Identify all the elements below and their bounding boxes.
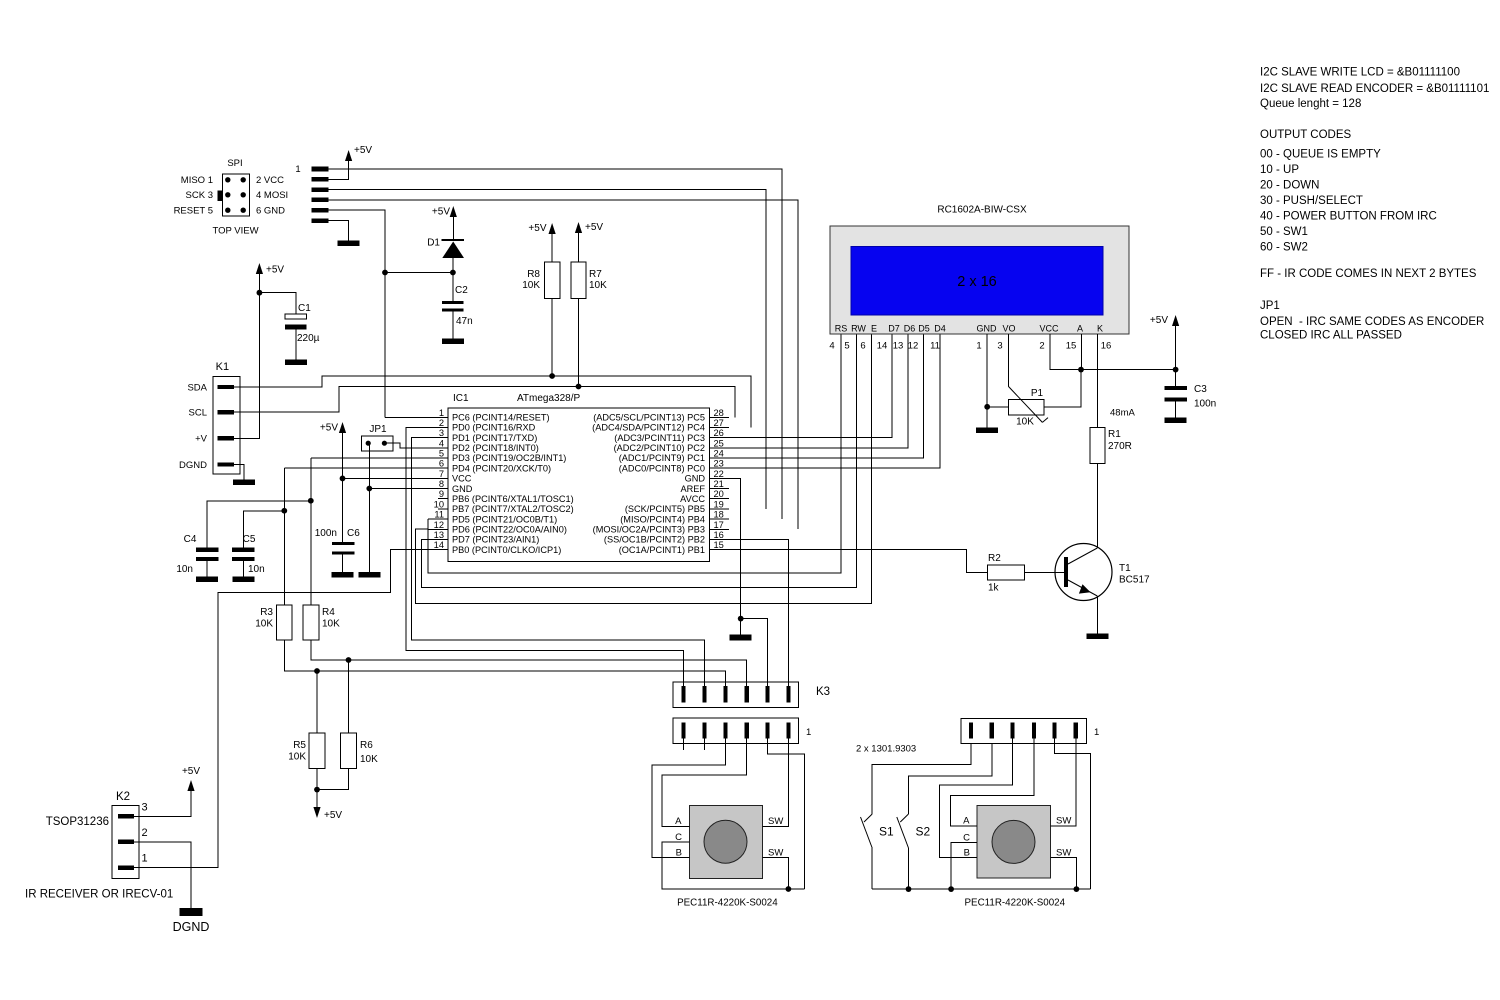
svg-text:+V: +V	[195, 434, 208, 445]
svg-text:18: 18	[714, 510, 724, 520]
svg-text:I2C SLAVE READ ENCODER = &B011: I2C SLAVE READ ENCODER = &B01111101	[1260, 83, 1489, 95]
svg-text:+5V: +5V	[432, 207, 450, 218]
pin 24 IC1 right stub	[709, 457, 729, 459]
svg-text:R8: R8	[527, 269, 540, 280]
svg-text:1k: 1k	[988, 583, 1000, 594]
svg-text:27: 27	[714, 418, 724, 428]
pin 22 IC1 right stub	[709, 477, 729, 479]
svg-text:C: C	[675, 832, 682, 843]
connector K3	[673, 682, 799, 707]
svg-text:+5V: +5V	[585, 222, 603, 233]
svg-text:40 - POWER BUTTON FROM IRC: 40 - POWER BUTTON FROM IRC	[1260, 211, 1437, 223]
switch S1	[872, 744, 971, 814]
node +5V / C3 junction	[1173, 367, 1179, 373]
svg-text:20: 20	[714, 489, 724, 499]
svg-text:14: 14	[877, 341, 888, 352]
svg-text:PD2 (PCINT18/INT0): PD2 (PCINT18/INT0)	[452, 443, 539, 453]
svg-text:K1: K1	[216, 361, 229, 373]
wire P1 right to A net	[1044, 370, 1081, 407]
svg-text:20 - DOWN: 20 - DOWN	[1260, 180, 1319, 192]
pin 9 IC1 left stub	[438, 498, 448, 500]
node +V junction	[257, 290, 263, 296]
connector K2 TSOP31236	[112, 806, 139, 879]
resistor R4 10K	[303, 605, 319, 640]
svg-text:JP1: JP1	[1260, 300, 1280, 312]
ground below IC	[730, 635, 752, 641]
svg-text:R6: R6	[360, 740, 373, 751]
svg-text:1: 1	[295, 164, 300, 175]
svg-text:1: 1	[976, 341, 981, 352]
wire GND to K3 pin5	[741, 619, 768, 686]
pin 28 IC1 right stub	[709, 416, 729, 418]
svg-text:4: 4	[439, 438, 444, 448]
wire C5 to R3 net	[243, 511, 284, 548]
svg-text:AREF: AREF	[680, 484, 705, 494]
svg-text:3: 3	[142, 802, 148, 814]
capacitor C4 10n	[196, 548, 219, 552]
ground at C3	[1165, 418, 1187, 424]
ground at C4	[196, 576, 218, 582]
svg-text:+5V: +5V	[324, 810, 342, 821]
resistor R8 10K	[544, 262, 560, 298]
svg-text:14: 14	[434, 540, 444, 550]
svg-text:R7: R7	[589, 269, 602, 280]
svg-text:RW: RW	[851, 324, 866, 334]
svg-text:10K: 10K	[522, 280, 540, 291]
svg-text:IC1: IC1	[453, 393, 469, 404]
svg-text:5: 5	[844, 341, 849, 352]
svg-text:K3: K3	[816, 686, 830, 698]
svg-text:E: E	[871, 324, 877, 334]
node rail C	[948, 886, 954, 892]
svg-text:C1: C1	[298, 303, 311, 314]
jumper JP1	[362, 436, 394, 451]
node C5 net	[281, 508, 287, 514]
svg-text:GND: GND	[977, 324, 998, 334]
svg-text:R1: R1	[1108, 429, 1121, 440]
svg-text:2 VCC: 2 VCC	[256, 175, 284, 186]
svg-text:B: B	[964, 847, 970, 858]
pin 17 IC1 right stub	[709, 528, 729, 530]
power +5V arrow at D1	[452, 214, 454, 240]
svg-text:PD5 (PCINT21/OC0B/T1): PD5 (PCINT21/OC0B/T1)	[452, 514, 557, 524]
svg-text:FF - IR CODE COMES IN NEXT 2 B: FF - IR CODE COMES IN NEXT 2 BYTES	[1260, 268, 1477, 280]
node VCC/A junction	[1078, 367, 1084, 373]
power +5V arrow at K1	[258, 271, 260, 293]
power +5V arrow at K2	[190, 788, 192, 790]
pin 20 IC1 right stub	[709, 498, 729, 500]
capacitor C5 10n	[232, 548, 255, 552]
svg-text:16: 16	[714, 530, 724, 540]
wire encoder1 SW bottom	[763, 858, 789, 890]
svg-text:13: 13	[893, 341, 904, 352]
svg-text:SPI: SPI	[227, 158, 242, 169]
svg-text:PEC11R-4220K-S0024: PEC11R-4220K-S0024	[965, 898, 1066, 909]
wire JP1 to ground	[368, 443, 370, 572]
pin 13 IC1 left stub	[428, 538, 448, 540]
svg-text:16: 16	[1101, 341, 1112, 352]
svg-text:6: 6	[439, 459, 444, 469]
svg-text:6: 6	[860, 341, 865, 352]
svg-text:D5: D5	[918, 324, 930, 334]
svg-text:SW: SW	[1056, 847, 1071, 858]
resistor R6 10K	[348, 660, 350, 733]
ground at LCD GND	[976, 427, 998, 433]
svg-text:1: 1	[142, 853, 148, 865]
pin 14 IC1 left stub	[428, 549, 448, 551]
resistor R3 10K	[277, 605, 293, 640]
svg-text:+5V: +5V	[354, 145, 372, 156]
rotary encoder body PEC11R	[689, 806, 762, 879]
svg-text:C: C	[963, 832, 970, 843]
svg-text:10K: 10K	[288, 752, 306, 763]
svg-text:PD7 (PCINT23/AIN1): PD7 (PCINT23/AIN1)	[452, 535, 539, 545]
svg-text:25: 25	[714, 438, 724, 448]
svg-text:A: A	[675, 816, 682, 827]
node GND tee at JP1	[366, 486, 372, 492]
wire MOSI: ISP bar4 to IC pin17	[329, 200, 798, 529]
svg-text:4 MOSI: 4 MOSI	[256, 190, 288, 201]
node R4/R6 junction	[346, 657, 352, 663]
svg-text:S2: S2	[916, 825, 931, 839]
wire encoder2 A	[950, 739, 1034, 826]
svg-text:A: A	[1077, 324, 1083, 334]
svg-text:(MOSI/OC2A/PCINT3) PB3: (MOSI/OC2A/PCINT3) PB3	[593, 524, 705, 534]
svg-text:VCC: VCC	[452, 474, 472, 484]
wire R4 bottom to K3 pin4	[311, 640, 747, 686]
power +5V arrow down at R5/R6	[316, 790, 318, 810]
wire IC pin2 PD0 to K3 pin1	[406, 428, 684, 687]
svg-text:VCC: VCC	[1039, 324, 1059, 334]
resistor R1 270R	[1090, 427, 1105, 463]
svg-text:(ADC0/PCINT8) PC0: (ADC0/PCINT8) PC0	[619, 463, 705, 473]
svg-text:PD6 (PCINT22/OC0A/AIN0): PD6 (PCINT22/OC0A/AIN0)	[452, 524, 567, 534]
svg-text:17: 17	[714, 520, 724, 530]
wire IC pin16 to K3 pin6	[729, 539, 788, 686]
connector ISP pin strip	[311, 167, 328, 172]
svg-text:220µ: 220µ	[297, 333, 320, 344]
svg-text:D4: D4	[934, 324, 946, 334]
svg-text:+5V: +5V	[266, 265, 284, 276]
svg-text:60 - SW2: 60 - SW2	[1260, 242, 1308, 254]
wire R5/R6 bottoms	[316, 769, 318, 790]
ground at ISP header	[338, 240, 360, 246]
node LCD GND / P1	[984, 404, 990, 410]
svg-text:C3: C3	[1194, 384, 1207, 395]
wire encoder2 pin5 to common rail	[1055, 739, 1091, 890]
svg-text:(SS/OC1B/PCINT2) PB2: (SS/OC1B/PCINT2) PB2	[604, 535, 705, 545]
svg-text:T1: T1	[1119, 563, 1131, 574]
wire +V: K1 to +5V	[234, 293, 259, 439]
svg-text:SCK 3: SCK 3	[186, 190, 213, 201]
node rail S2	[906, 886, 912, 892]
wire R3 net to IC pin6	[283, 468, 285, 605]
svg-text:ATmega328/P: ATmega328/P	[517, 393, 581, 404]
svg-text:+5V: +5V	[320, 423, 338, 434]
node VCC tee	[340, 476, 346, 482]
svg-text:15: 15	[1066, 341, 1077, 352]
svg-text:00 - QUEUE IS EMPTY: 00 - QUEUE IS EMPTY	[1260, 149, 1381, 161]
wire K2 pin3 to +5V	[134, 790, 191, 816]
wire DGND: K1 to ground	[234, 465, 244, 480]
node encoder1 SW common	[786, 886, 792, 892]
connector encoder1 pin strip	[673, 718, 799, 743]
svg-text:100n: 100n	[315, 528, 337, 539]
svg-text:A: A	[963, 816, 970, 827]
svg-text:GND: GND	[685, 474, 706, 484]
wire encoder2 SW top	[1050, 739, 1075, 826]
svg-text:GND: GND	[452, 484, 473, 494]
pin 6 IC1 left stub	[428, 467, 448, 469]
svg-text:2 x 16: 2 x 16	[957, 274, 997, 290]
svg-text:270R: 270R	[1108, 441, 1132, 452]
svg-text:15: 15	[714, 540, 724, 550]
svg-text:13: 13	[434, 530, 444, 540]
svg-text:10K: 10K	[589, 280, 607, 291]
wire encoder1 A	[662, 739, 747, 827]
wire encoder2 C	[951, 843, 977, 890]
svg-text:4: 4	[829, 341, 834, 352]
svg-text:Queue lenght = 128: Queue lenght = 128	[1260, 98, 1361, 110]
svg-text:24: 24	[714, 449, 724, 459]
svg-text:10n: 10n	[176, 564, 193, 575]
capacitor C3 100n	[1175, 370, 1177, 386]
svg-text:2: 2	[142, 827, 148, 839]
stub encoder1 pin1	[683, 739, 685, 751]
stub encoder1 pin2	[704, 739, 706, 751]
wire to C1	[259, 293, 295, 314]
svg-text:DGND: DGND	[173, 920, 210, 934]
wire IC pin24 to LCD D5	[729, 334, 924, 458]
wire R3 bottom to K3 pin3	[284, 640, 725, 686]
wire MISO: ISP bar1 to IC pin18	[329, 169, 782, 519]
ground at JP1	[358, 572, 380, 578]
pin 18 IC1 right stub	[709, 518, 729, 520]
rotary encoder 2 knob	[992, 820, 1035, 863]
wire encoder1 SW top	[763, 739, 789, 827]
transistor T1 BC517	[1055, 544, 1112, 601]
svg-text:PC6 (PCINT14/RESET): PC6 (PCINT14/RESET)	[452, 413, 550, 423]
svg-text:OUTPUT CODES: OUTPUT CODES	[1260, 129, 1351, 141]
ground at C5	[232, 576, 254, 582]
wire JP1 to IC pin4	[384, 443, 448, 448]
node R3/R5 junction	[314, 668, 320, 674]
svg-text:10K: 10K	[322, 619, 340, 630]
svg-text:8: 8	[439, 479, 444, 489]
pin 15 IC1 right stub	[709, 549, 729, 551]
pin 4 IC1 left stub	[428, 447, 448, 449]
svg-text:SW: SW	[1056, 816, 1071, 827]
svg-text:1: 1	[439, 408, 444, 418]
svg-text:6 GND: 6 GND	[256, 205, 285, 216]
svg-text:C4: C4	[184, 534, 197, 545]
pin 10 IC1 left stub	[438, 508, 448, 510]
wire VCC: ISP bar2 to +5V	[329, 160, 349, 179]
svg-text:AVCC: AVCC	[680, 494, 705, 504]
node rail SW	[1074, 886, 1080, 892]
svg-text:11: 11	[930, 341, 940, 352]
wire SDA: K1 to IC pin27	[234, 376, 751, 428]
svg-text:RESET 5: RESET 5	[174, 205, 213, 216]
wire GND: ISP bar6 to ground	[329, 221, 349, 241]
wire IC pin3 PD1 to K3 pin2	[411, 438, 704, 686]
svg-text:R5: R5	[293, 740, 306, 751]
rotary encoder 2 body PEC11R	[977, 805, 1051, 878]
svg-text:(SCK/PCINT5) PB5: (SCK/PCINT5) PB5	[625, 504, 705, 514]
capacitor C6 100n	[332, 542, 355, 545]
IC U1 ATmega328/P body	[448, 408, 709, 562]
svg-text:D7: D7	[888, 324, 900, 334]
svg-text:SW: SW	[768, 816, 783, 827]
svg-text:9: 9	[439, 489, 444, 499]
capacitor C1 220u electrolytic	[285, 314, 307, 319]
svg-text:JP1: JP1	[369, 424, 387, 435]
node R5/R6 bottom junction	[314, 787, 320, 793]
ground at C1	[285, 359, 307, 365]
wire R4 net to IC pin5	[310, 458, 312, 605]
wire encoder1 common to pin5	[767, 739, 804, 890]
wire K2 pin2 to DGND	[134, 842, 191, 908]
potentiometer P1 10K	[1009, 399, 1045, 414]
resistor R7 10K	[571, 262, 586, 298]
pin 16 IC1 right stub	[709, 538, 729, 540]
wire encoder1 B	[652, 739, 725, 858]
svg-text:2 x 1301.9303: 2 x 1301.9303	[856, 744, 916, 755]
connector encoder2 pin strip	[961, 718, 1086, 743]
pin 21 IC1 right stub	[709, 488, 729, 490]
wire IC pin1 reset stub	[385, 416, 428, 418]
node C4 net	[308, 498, 314, 504]
wire SCL: K1 to IC pin28	[234, 387, 735, 418]
svg-text:C2: C2	[455, 285, 468, 296]
pin 8 IC1 left stub	[428, 488, 448, 490]
pin 12 IC1 left stub	[428, 528, 448, 530]
svg-text:12: 12	[434, 520, 444, 530]
svg-text:21: 21	[714, 479, 724, 489]
ground at C2	[442, 339, 464, 345]
svg-text:S1: S1	[879, 825, 894, 839]
svg-text:5: 5	[439, 449, 444, 459]
svg-text:48mA: 48mA	[1110, 408, 1135, 419]
svg-text:(ADC2/PCINT10) PC2: (ADC2/PCINT10) PC2	[614, 443, 705, 453]
svg-text:23: 23	[714, 459, 724, 469]
wire IC pin14 to K2 pin1	[134, 550, 428, 868]
wire P1 left	[987, 406, 1008, 408]
svg-text:PB6 (PCINT6/XTAL1/TOSC1): PB6 (PCINT6/XTAL1/TOSC1)	[452, 494, 574, 504]
svg-text:K2: K2	[116, 791, 130, 803]
LCD screen 2x16	[851, 247, 1103, 316]
rotary encoder knob	[704, 820, 747, 863]
wire IC pin15 to R2	[729, 550, 987, 573]
svg-text:PD3 (PCINT19/OC2B/INT1): PD3 (PCINT19/OC2B/INT1)	[452, 453, 566, 463]
wire IC pin12 to LCD E	[416, 334, 872, 604]
node R7-SCL	[576, 384, 582, 390]
svg-text:+5V: +5V	[1150, 315, 1168, 326]
wire IC pin7 VCC	[343, 477, 429, 479]
svg-text:3: 3	[997, 341, 1002, 352]
svg-text:PD4 (PCINT20/XCK/T0): PD4 (PCINT20/XCK/T0)	[452, 463, 551, 473]
wire LCD K pin16 to R1	[1096, 334, 1098, 427]
svg-text:R3: R3	[260, 607, 273, 618]
pin 25 IC1 right stub	[709, 447, 729, 449]
svg-text:K: K	[1097, 324, 1103, 334]
svg-text:D6: D6	[904, 324, 916, 334]
pin 26 IC1 right stub	[709, 437, 729, 439]
svg-text:12: 12	[908, 341, 919, 352]
wire encoder1 C	[662, 842, 804, 889]
svg-text:PEC11R-4220K-S0024: PEC11R-4220K-S0024	[677, 898, 778, 909]
svg-text:C5: C5	[243, 534, 256, 545]
svg-text:10: 10	[434, 499, 444, 509]
svg-text:1: 1	[1094, 727, 1099, 738]
diode D1	[442, 239, 465, 241]
svg-text:10K: 10K	[255, 619, 273, 630]
svg-text:(ADC5/SCL/PCINT13) PC5: (ADC5/SCL/PCINT13) PC5	[593, 413, 705, 423]
node R8-SDA	[549, 373, 555, 379]
power +5V arrow at VCC net	[342, 430, 344, 542]
pin 7 IC1 left stub	[428, 477, 448, 479]
wire IC pin13 to LCD RW	[422, 334, 857, 588]
svg-text:SW: SW	[768, 847, 783, 858]
svg-text:RC1602A-BIW-CSX: RC1602A-BIW-CSX	[937, 205, 1027, 216]
svg-text:R2: R2	[988, 553, 1001, 564]
node GND junction below IC	[738, 616, 744, 622]
svg-text:11: 11	[434, 510, 444, 520]
resistor R2 1k	[987, 565, 1024, 580]
svg-text:10 - UP: 10 - UP	[1260, 164, 1299, 176]
pin 3 IC1 left stub	[428, 437, 448, 439]
switch S2	[909, 744, 992, 814]
power +5V arrow at ISP header	[348, 158, 350, 179]
capacitor C2	[452, 273, 454, 301]
wire SCK: ISP bar3 to IC pin19	[329, 190, 766, 509]
pin 2 IC1 left stub	[428, 426, 448, 428]
svg-text:TSOP31236: TSOP31236	[46, 816, 109, 828]
svg-text:(MISO/PCINT4) PB4: (MISO/PCINT4) PB4	[620, 514, 705, 524]
svg-text:SCL: SCL	[189, 408, 207, 419]
svg-text:1: 1	[806, 727, 811, 738]
ground at T1 emitter	[1086, 634, 1108, 640]
svg-text:30 - PUSH/SELECT: 30 - PUSH/SELECT	[1260, 195, 1363, 207]
power +5V arrow at C3	[1175, 323, 1177, 370]
svg-text:I2C SLAVE WRITE LCD = &B011111: I2C SLAVE WRITE LCD = &B01111100	[1260, 67, 1460, 79]
wire LCD GND pin1	[986, 334, 988, 427]
svg-text:P1: P1	[1031, 388, 1044, 399]
svg-text:3: 3	[439, 428, 444, 438]
wire IC pin11 to LCD RS	[428, 334, 841, 573]
wire encoder2 common rail	[872, 888, 1090, 890]
svg-text:(ADC4/SDA/PCINT12) PC4: (ADC4/SDA/PCINT12) PC4	[592, 423, 705, 433]
svg-text:(OC1A/PCINT1) PB1: (OC1A/PCINT1) PB1	[619, 545, 705, 555]
svg-text:IR RECEIVER OR IRECV-01: IR RECEIVER OR IRECV-01	[25, 889, 173, 901]
connector K1	[213, 376, 240, 474]
power +5V arrow at R7	[578, 230, 580, 262]
svg-text:100n: 100n	[1194, 399, 1216, 410]
node reset junction	[450, 270, 456, 276]
svg-text:CLOSED IRC ALL PASSED: CLOSED IRC ALL PASSED	[1260, 330, 1402, 342]
svg-text:(ADC3/PCINT11) PC3: (ADC3/PCINT11) PC3	[614, 433, 705, 443]
pin 5 IC1 left stub	[428, 457, 448, 459]
pin 11 IC1 left stub	[428, 518, 448, 520]
wire encoder2 SW bottom	[1050, 858, 1076, 890]
svg-text:19: 19	[714, 499, 724, 509]
svg-text:PB7 (PCINT7/XTAL2/TOSC2): PB7 (PCINT7/XTAL2/TOSC2)	[452, 504, 574, 514]
svg-text:2: 2	[439, 418, 444, 428]
svg-text:DGND: DGND	[179, 460, 207, 471]
svg-text:+5V: +5V	[182, 766, 200, 777]
svg-text:7: 7	[439, 469, 444, 479]
svg-text:BC517: BC517	[1119, 575, 1150, 586]
